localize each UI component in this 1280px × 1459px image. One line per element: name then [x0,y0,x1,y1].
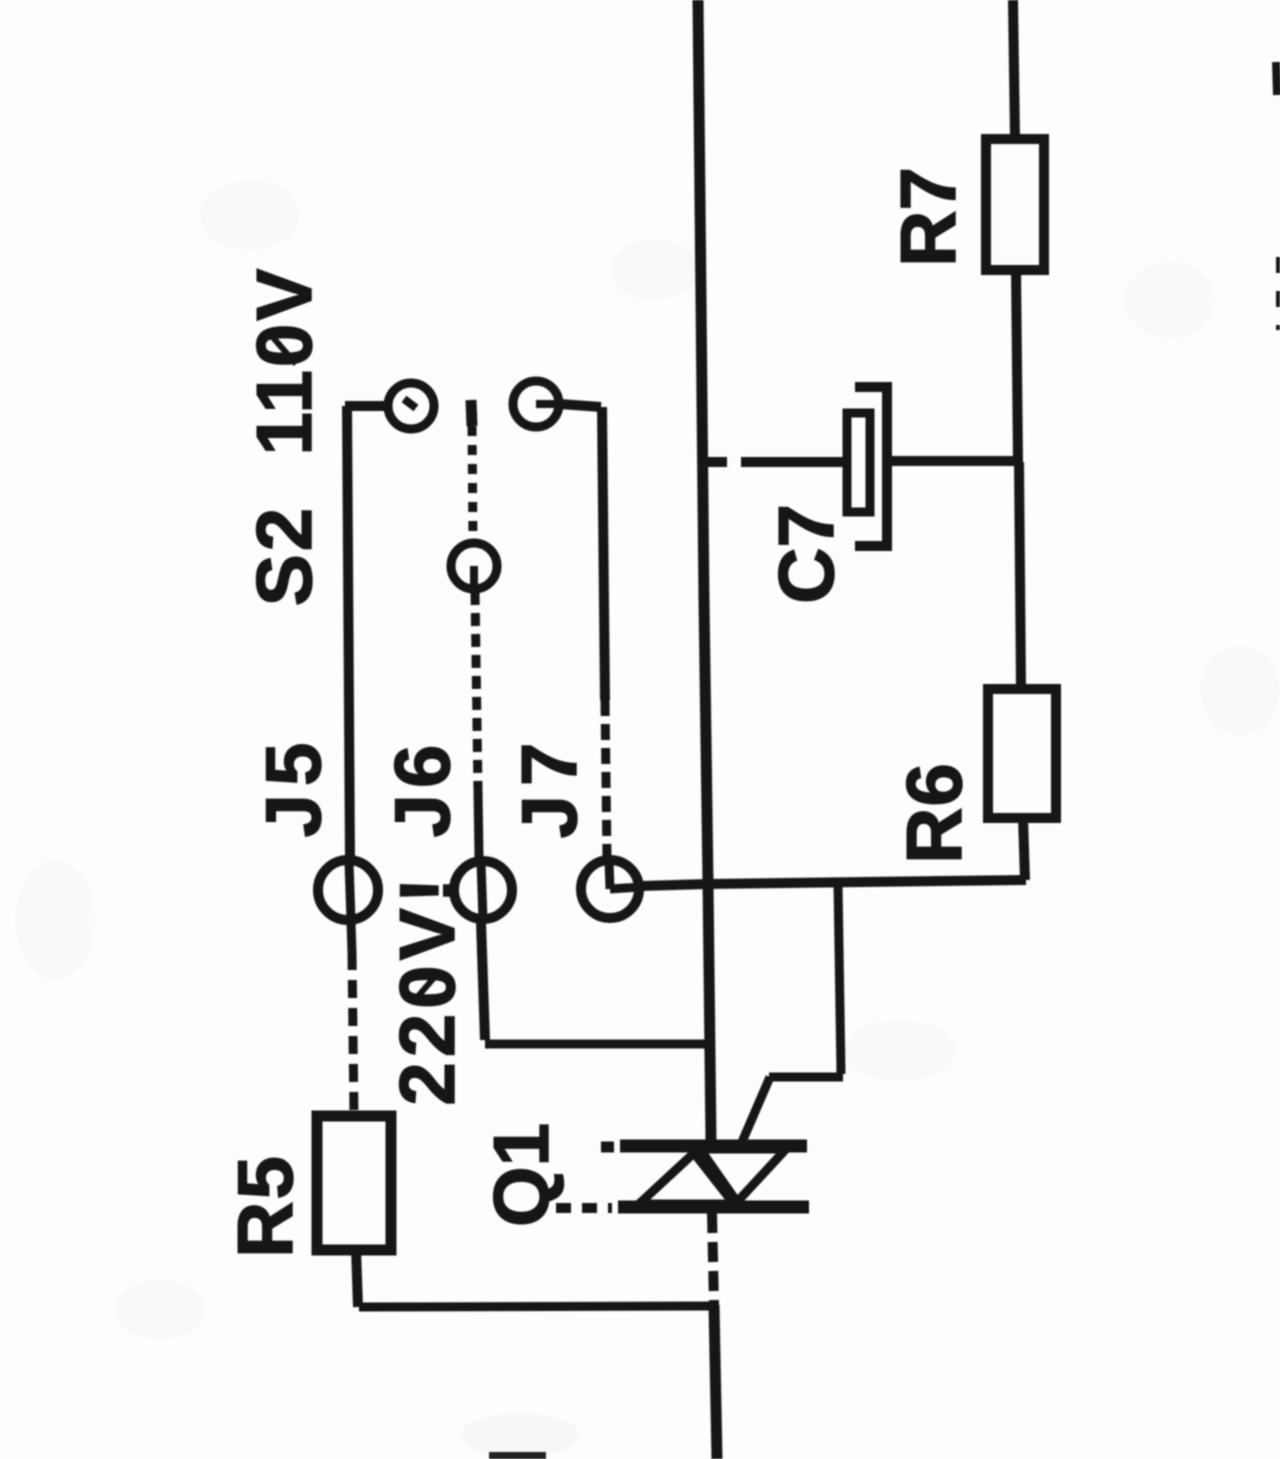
wire: R7 top lead from top edge [1013,0,1015,137]
wire: gate branch horizontal [769,1073,843,1082]
svg-text:J5: J5 [249,735,337,838]
wire: main AC vertical line (top to triac MT2) [698,0,711,1141]
svg-text:S2 110V: S2 110V [240,266,328,607]
label S2 110V [240,266,328,607]
wire: J5-R5 dashed part [352,952,354,1116]
label 220V! [383,872,471,1105]
resistor R6 [988,689,1056,818]
triac Q1 top bar (MT2) [620,1140,807,1153]
label R7 [884,167,972,267]
triac Q1 upward triangle [639,1153,734,1204]
scan artifact: bottom edge blob [489,1452,546,1459]
wire: J6 horizontal to main vertical [485,1040,707,1049]
wire: C7 left lead from main vertical [704,457,727,467]
wire: gate lead diagonal into triac [742,1077,770,1142]
wire: right vertical from corner down to J7 [602,407,605,700]
svg-text:J6: J6 [378,739,466,838]
wire: R7 bottom lead down to C7 node [1016,270,1018,462]
wire: top-left jack horizontal [345,401,385,411]
tick inside top-right terminal [536,400,558,408]
resistor R5 [317,1116,391,1250]
wire: through J6 [481,862,483,920]
triac Q1 downward triangle [700,1149,786,1202]
wire: R6 bottom lead [1023,817,1025,880]
label R5 [221,1154,309,1258]
triac Q1 bottom bar (MT1) [618,1201,809,1214]
triac Q1 top bar dashed left tail [601,1142,614,1153]
wire: top-right jack horizontal [560,404,601,407]
wire: J7 to R6 horizontal (through main vertical junction) [641,880,1026,886]
svg-text:C7: C7 [762,504,850,604]
wire: middle vertical from center contact to J6 [475,592,478,790]
terminal circle S2 top-left [388,383,434,429]
svg-text:R7: R7 [884,167,972,267]
wire: into J7 from top [609,861,610,889]
jack circle J5 [318,860,378,920]
wire: right vertical lower dashed part [605,700,607,858]
wire: R5 bottom lead [356,1248,358,1307]
svg-text:R5: R5 [221,1154,309,1258]
wire: C7 node down to R6 top [1019,462,1021,689]
wire: J5 down to R5 (dashed scan) [351,922,352,952]
capacitor C7 plate 2 (right, bracket) [855,387,887,546]
jack circle J7 [581,860,639,918]
wire: J6 down to gate-node horizontal [481,922,485,1040]
wire: middle stub below selector row [471,400,472,426]
tick inside top-left terminal [404,399,416,408]
tick inside middle terminal [470,566,478,590]
wire: bottom vertical solid to page edge [714,1305,717,1459]
label Q1 [477,1123,565,1227]
svg-text:R6: R6 [890,762,978,864]
terminal circle S2 middle [451,543,497,589]
label C7 [762,504,850,604]
wire: middle vertical solid tail into J6 [478,790,479,858]
resistor R7 [986,139,1044,270]
jack circle J6 [454,861,512,919]
wire: C7 right lead to R7/R6 node [892,456,1018,466]
label R6 [890,762,978,864]
wire: bottom horizontal from R5 to main vertical [359,1306,712,1307]
capacitor C7 plate 1 (left, hollow bar) [847,413,870,512]
wire: J7 out right to junction [610,887,641,889]
svg-text:Q1: Q1 [477,1123,565,1227]
slash inside 0 of S2 110V [270,334,296,364]
terminal circle S2 top-right [513,381,559,427]
label J7 [505,734,593,839]
wire: below triac vertical to bottom edge [712,1213,714,1305]
wire: left vertical from corner down to J5 [347,406,350,860]
slash inside 0 of 220V! [413,972,439,1002]
wire: middle dashed vertical to center contact [472,426,473,541]
wire: through J5 [349,862,351,920]
label J6 [378,739,466,838]
svg-text:J7: J7 [505,734,593,839]
label J5 [249,735,337,838]
scan artifact: right edge marks [1276,62,1277,95]
wire: gate branch vertical from J7-R6 wire [838,884,841,1074]
wire: C7 left lead second segment [741,457,845,467]
triac Q1 bottom bar dashed left tail [556,1203,612,1213]
